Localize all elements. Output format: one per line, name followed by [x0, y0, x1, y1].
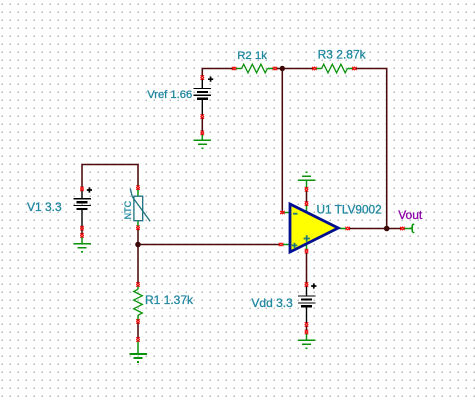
svg-text:U1 TLV9002: U1 TLV9002 — [317, 203, 382, 217]
svg-text:Vref 1.66: Vref 1.66 — [147, 89, 192, 101]
svg-text:Vdd 3.3: Vdd 3.3 — [251, 296, 293, 310]
svg-text:NTC: NTC — [123, 200, 133, 219]
svg-text:R3 2.87k: R3 2.87k — [318, 48, 367, 62]
svg-text:R2 1k: R2 1k — [237, 50, 267, 62]
svg-text:R1 1.37k: R1 1.37k — [145, 293, 194, 307]
svg-text:V1 3.3: V1 3.3 — [27, 200, 62, 214]
svg-text:Vout: Vout — [398, 208, 423, 222]
